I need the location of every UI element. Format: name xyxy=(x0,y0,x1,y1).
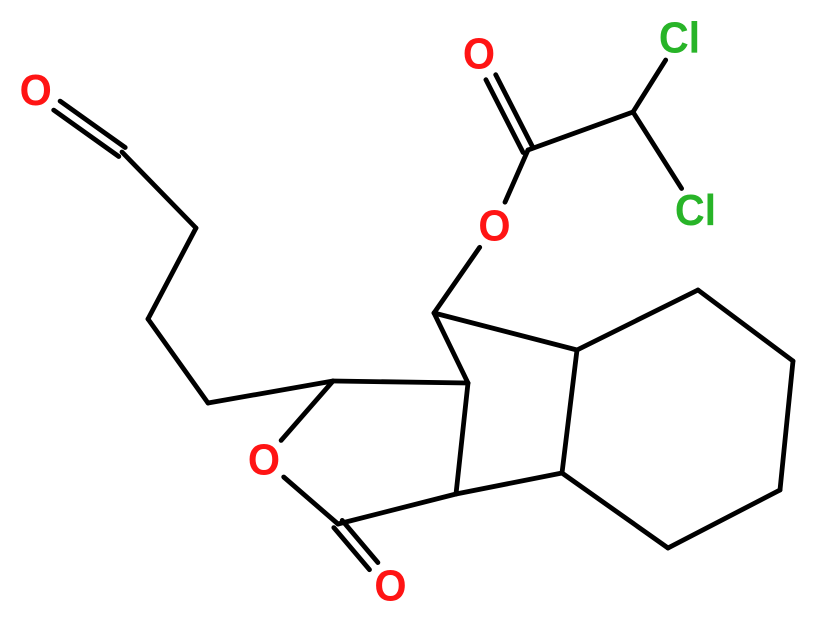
svg-text:O: O xyxy=(478,201,510,250)
svg-text:O: O xyxy=(374,561,406,610)
svg-text:Cl: Cl xyxy=(675,186,716,235)
svg-text:O: O xyxy=(248,435,280,484)
svg-text:Cl: Cl xyxy=(659,13,700,62)
svg-text:O: O xyxy=(463,29,495,78)
svg-text:O: O xyxy=(20,66,52,115)
